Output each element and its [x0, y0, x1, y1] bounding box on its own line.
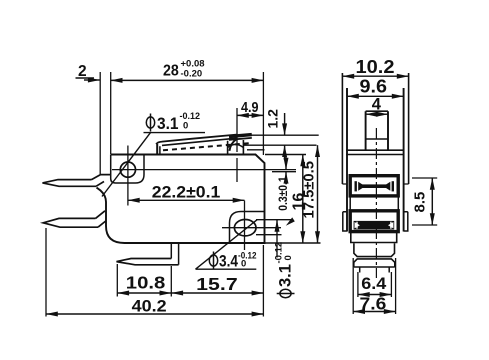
ref line seam right: [247, 149, 265, 151]
svg-text:10.8: 10.8: [126, 272, 166, 292]
plunger button: [228, 140, 244, 154]
lower wing left: [343, 212, 347, 231]
dim 9.6 line: [347, 95, 404, 97]
svg-text:-0.20: -0.20: [181, 69, 203, 80]
dim 2: extension lines: [100, 72, 111, 174]
lever end bar: [229, 135, 252, 137]
dim 8.5 line: [431, 178, 433, 225]
dim 4.9: extension: [236, 108, 238, 182]
dim 6.4 line: [358, 294, 392, 296]
centerline: [375, 128, 377, 278]
body side right: [403, 88, 405, 232]
ref line L3 body top ext: [265, 154, 306, 156]
terminal 2 (lower left): [43, 218, 98, 227]
svg-text:0: 0: [183, 121, 188, 132]
dim 40.2 line: [46, 313, 263, 315]
flange/ext line outer left: [341, 73, 343, 184]
dim 10.8/15.7 extension lines: [117, 264, 171, 297]
oblique arrowhead at ellipse: [286, 217, 295, 225]
terminal block 2 clip: [354, 221, 395, 230]
dim 28: right extension: [262, 72, 264, 155]
body bottom terminal slot: [171, 243, 178, 265]
terminal 1 (upper left): [43, 180, 97, 187]
dim 16: line: [302, 155, 304, 244]
ref line L4 body bottom ext: [265, 242, 321, 244]
svg-text:15.7: 15.7: [196, 274, 238, 294]
svg-text:2: 2: [78, 63, 87, 80]
hole centerline horizontal: [112, 169, 296, 171]
collar: [354, 259, 395, 267]
dim 22.2: line: [128, 199, 245, 201]
dim 4 line: [366, 113, 388, 115]
dim 1.2: arrows: [284, 113, 286, 135]
svg-text:10.2: 10.2: [356, 56, 395, 77]
svg-text:0: 0: [241, 259, 246, 270]
dim 40.2 extension lines: [46, 228, 263, 317]
dim 9.6 ext: [347, 88, 404, 96]
dim 6.4 ext: [358, 272, 392, 297]
phi3.1 top callout shelf: [144, 132, 206, 134]
phi3.4 callout shelf: [196, 268, 257, 270]
wing caps: [342, 183, 408, 185]
pivot hole (left): [120, 162, 135, 177]
top band: [346, 150, 404, 154]
terminal block 1 border: [350, 176, 398, 196]
bottom stubs: [360, 267, 390, 273]
bottom block (trapezoid): [354, 243, 395, 256]
mounting hole (right, shown as ellipse): [234, 220, 256, 236]
svg-text:4: 4: [372, 96, 382, 114]
bottom narrow section: [351, 232, 397, 243]
svg-text:7.6: 7.6: [360, 294, 387, 314]
callout text phi3.4: [209, 251, 256, 271]
svg-text:3.1: 3.1: [157, 115, 179, 133]
dim 10.8 line: [117, 292, 171, 294]
dim 0.3: arrows: [285, 157, 287, 170]
flange/ext line outer right: [408, 73, 410, 184]
body side left: [346, 88, 348, 232]
dim 28: line: [111, 79, 264, 81]
svg-text:40.2: 40.2: [132, 298, 167, 316]
svg-text:17.5±0.5: 17.5±0.5: [302, 161, 318, 219]
dim 10.2 line: [342, 75, 408, 77]
terminal 3 (bottom): [117, 259, 179, 265]
dim 8.5 ext lines: [412, 178, 437, 225]
dim 7.6 line: [353, 311, 395, 313]
dim 4.9: line: [237, 114, 263, 116]
hinge lever top edge: [156, 135, 236, 145]
switch body outline (side view): [97, 155, 265, 244]
button tower: [366, 111, 388, 150]
dim 15.7 line: [171, 292, 263, 294]
lever hidden line (dashed): [163, 143, 249, 150]
ellipse bottom tangent ref: [256, 234, 282, 236]
phi3.4 callout leader: [196, 220, 258, 269]
lever left hook riser: [156, 144, 158, 155]
svg-text:3.4: 3.4: [219, 253, 239, 271]
callout text phi3.1 bottom (rotated): [274, 242, 295, 298]
step between blocks: [350, 196, 398, 210]
svg-text:4.9: 4.9: [241, 100, 259, 116]
ref line L1 lever tip: [252, 134, 319, 136]
phi3.1 top callout leader: [102, 133, 151, 197]
svg-text:1.2: 1.2: [265, 109, 281, 129]
ref line L2 operating position: [244, 144, 317, 146]
mounting boss bottom-right: [230, 212, 265, 244]
svg-text:0: 0: [283, 255, 294, 260]
right hole centerline horizontal: [222, 227, 281, 229]
dim 17.5: line: [317, 145, 319, 243]
dim 2: leader with arrow: [76, 77, 95, 79]
mounting boss top-left: [111, 155, 144, 184]
dim 7.6 ext: [353, 258, 395, 314]
ellipse top tangent ref: [256, 219, 292, 221]
hole centerline vertical: [127, 146, 129, 206]
svg-text:28: 28: [163, 62, 179, 79]
svg-text:8.5: 8.5: [412, 192, 429, 213]
lever end curl: [229, 139, 236, 151]
hinge lever bottom edge: [162, 138, 237, 145]
svg-text:0.3±0.1: 0.3±0.1: [276, 176, 290, 211]
phi3.1 vertical dim arrows: [276, 220, 278, 230]
svg-text:9.6: 9.6: [360, 75, 388, 96]
svg-text:22.2±0.1: 22.2±0.1: [152, 184, 221, 202]
right hole centerline vertical: [244, 201, 246, 251]
lower wing right: [404, 212, 408, 231]
ref line 0.3 lower: [272, 171, 296, 173]
terminal block 1 clip: [355, 181, 395, 191]
terminal block 2 border: [350, 211, 398, 232]
svg-text:6.4: 6.4: [361, 274, 387, 293]
callout text phi3.1 top: [146, 111, 200, 133]
svg-text:3.1: 3.1: [277, 264, 295, 287]
